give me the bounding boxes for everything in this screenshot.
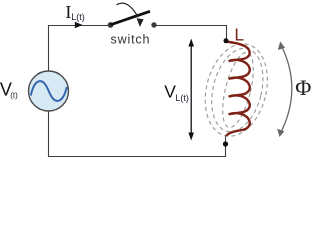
svg-text:L(t): L(t) — [71, 12, 85, 22]
svg-text:(t): (t) — [10, 91, 18, 100]
svg-text:L: L — [234, 25, 244, 45]
svg-text:Φ: Φ — [295, 75, 311, 100]
svg-text:L(t): L(t) — [175, 93, 189, 103]
svg-text:switch: switch — [111, 33, 151, 47]
svg-text:V: V — [164, 82, 176, 102]
